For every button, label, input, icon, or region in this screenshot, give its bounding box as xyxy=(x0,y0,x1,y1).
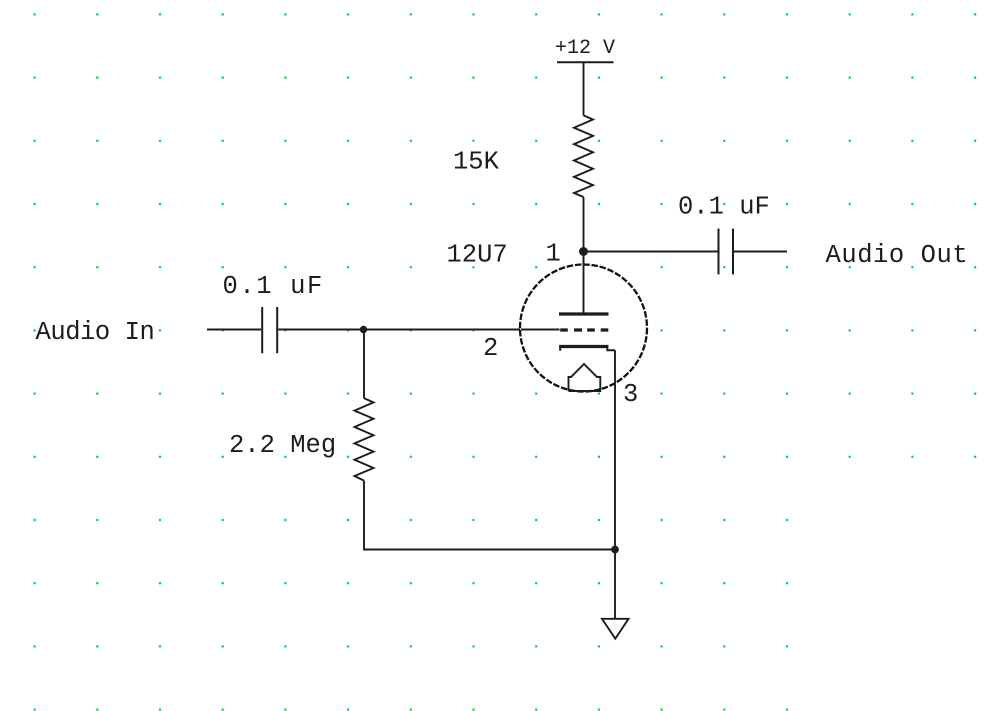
svg-text:3: 3 xyxy=(623,380,638,409)
junction cathode ground node xyxy=(611,546,619,554)
wire plate stub xyxy=(521,252,584,330)
wire node 1 to C2 xyxy=(584,251,718,253)
svg-text:0.1 uF: 0.1 uF xyxy=(678,193,770,222)
svg-text:12U7: 12U7 xyxy=(447,240,508,269)
wire junction to R2 xyxy=(363,330,365,399)
wire C2 to Audio Out xyxy=(734,251,787,253)
resistor R1 15K zigzag xyxy=(574,115,593,197)
ground xyxy=(602,619,629,639)
svg-text:Audio Out: Audio Out xyxy=(826,241,969,270)
wire cathode to node 3 xyxy=(614,350,616,549)
capacitor C2 0.1uF plates xyxy=(719,229,734,275)
wire +12V to R1 xyxy=(583,63,585,115)
junction grid node xyxy=(360,326,367,333)
capacitor C1 0.1uF plates xyxy=(262,307,277,353)
power symbol +12 V bar xyxy=(557,61,614,63)
svg-text:2: 2 xyxy=(483,334,498,363)
wire C1 to tube grid xyxy=(278,329,559,331)
resistor R2 2.2 Meg zigzag xyxy=(355,398,374,480)
junction node 1 xyxy=(579,247,588,256)
svg-text:15K: 15K xyxy=(453,148,500,177)
wire Audio In to C1 xyxy=(207,329,261,331)
svg-text:1: 1 xyxy=(546,239,561,268)
tube U1 plate xyxy=(559,312,609,315)
svg-text:+12 V: +12 V xyxy=(555,37,615,60)
wire R2 to ground rail xyxy=(364,481,615,550)
tube U1 heater xyxy=(569,364,601,391)
svg-text:Audio In: Audio In xyxy=(36,318,155,347)
tube U1 grid dashes xyxy=(560,328,608,331)
wire node 3 to ground xyxy=(614,550,616,620)
svg-text:2.2 Meg: 2.2 Meg xyxy=(229,431,336,460)
svg-text:0.1 uF: 0.1 uF xyxy=(223,272,324,301)
wire R1 to tube plate xyxy=(583,197,585,314)
tube U1 envelope circle xyxy=(520,265,647,392)
tube U1 cathode xyxy=(560,347,615,351)
